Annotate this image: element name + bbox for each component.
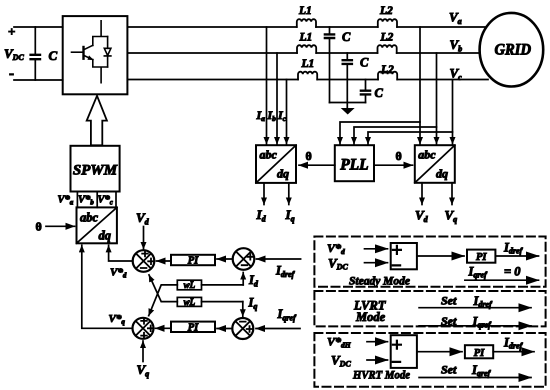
- svg-text:L1: L1: [298, 5, 312, 17]
- wire Iqref input: [256, 328, 300, 330]
- wire phase A line: [127, 26, 488, 28]
- svg-text:abc: abc: [260, 148, 278, 162]
- wire PI to S1: [157, 260, 172, 262]
- wire phase C line: [127, 79, 488, 81]
- svg-text:VDC: VDC: [328, 256, 348, 272]
- svg-text:Iqref: Iqref: [277, 307, 298, 323]
- svg-text:V*q: V*q: [109, 313, 126, 326]
- block PI (steady mode): [467, 250, 495, 264]
- wire Vq output: [451, 183, 453, 205]
- label Ic: [277, 108, 287, 123]
- wire Vb voltage tap: [436, 53, 438, 144]
- svg-text:C: C: [49, 48, 58, 63]
- svg-text:Mode: Mode: [355, 310, 386, 324]
- label C filter phase C: [375, 86, 384, 100]
- wire wL1 right to Id node: [202, 284, 244, 286]
- label Set Iqref (HVRT): [441, 363, 492, 379]
- grid source GRID: [480, 13, 544, 87]
- label L2 phase B: [380, 32, 394, 44]
- inductor L1 phase A: [297, 19, 316, 27]
- block PI (HVRT): [465, 345, 493, 359]
- svg-text:V*dH: V*dH: [327, 335, 352, 350]
- svg-text:Iq: Iq: [285, 207, 295, 224]
- svg-text:Idref: Idref: [503, 336, 524, 351]
- label L1 phase A: [298, 5, 312, 17]
- svg-text:L2: L2: [380, 32, 394, 44]
- gate drive arrow (SPWM to inverter): [87, 96, 107, 146]
- label L1 phase B: [299, 32, 313, 44]
- block abc to dq (voltage measurement): [415, 145, 455, 183]
- label theta (to dq-abc): [36, 220, 42, 234]
- svg-text:θ: θ: [36, 220, 42, 234]
- wire wL2 right to Iq node: [202, 301, 243, 303]
- inductor L2 phase B: [378, 45, 397, 53]
- wire V*b (dq-abc to SPWM): [96, 192, 98, 208]
- ground (filter neutral arrow): [342, 109, 353, 114]
- box Steady Mode (dashed): [314, 237, 545, 287]
- svg-text:V*d: V*d: [327, 241, 345, 256]
- label Iqref = 0: [468, 265, 522, 280]
- svg-text:Vq: Vq: [137, 362, 150, 379]
- label theta right: [396, 149, 402, 163]
- wire V*q to dq-abc block: [82, 245, 133, 328]
- label Iqref: [277, 307, 298, 323]
- wire Set Iqref arrow (HVRT): [419, 377, 531, 379]
- wire Set Idref arrow (LVRT): [419, 307, 531, 309]
- block wL (cross coupling 1): [177, 280, 201, 290]
- wire Vb to PLL: [354, 127, 437, 144]
- svg-text:Set: Set: [441, 363, 457, 377]
- wire Iq output: [288, 183, 290, 205]
- wire Idref out (HVRT): [493, 351, 534, 353]
- label Mode (LVRT): [355, 310, 386, 324]
- svg-text:Id: Id: [256, 207, 267, 224]
- svg-text:Ib: Ib: [267, 108, 277, 123]
- wire theta PLL to left abc-dq: [299, 164, 335, 166]
- wire V*d into comparator: [365, 248, 388, 250]
- wire Vq into S3: [142, 341, 144, 362]
- svg-text:Set: Set: [441, 294, 457, 308]
- label Id feedback: [248, 273, 259, 289]
- label Va: [449, 10, 462, 27]
- label Ia: [256, 108, 266, 123]
- svg-text:wL: wL: [184, 280, 196, 290]
- wire Ic current tap: [286, 80, 288, 145]
- svg-text:V*b: V*b: [78, 195, 94, 207]
- label V*d (steady mode): [327, 241, 345, 256]
- svg-text:PI: PI: [188, 255, 199, 266]
- box HVRT Mode (dashed): [314, 333, 545, 387]
- label Iq output: [285, 207, 295, 224]
- svg-text:Vc: Vc: [450, 66, 463, 83]
- svg-text:V*a: V*a: [58, 195, 74, 207]
- label V*q: [109, 313, 126, 326]
- wire VDC into comparator: [365, 262, 388, 264]
- svg-text:dq: dq: [99, 229, 112, 243]
- svg-text:L1: L1: [299, 32, 313, 44]
- svg-text:HVRT Mode: HVRT Mode: [352, 368, 410, 382]
- label Set Iqref (LVRT): [441, 314, 492, 330]
- svg-text:C: C: [375, 86, 384, 100]
- svg-text:Steady Mode: Steady Mode: [349, 274, 411, 288]
- svg-text:Va: Va: [449, 10, 462, 27]
- svg-text:PLL: PLL: [340, 157, 368, 174]
- svg-text:V*d: V*d: [110, 267, 127, 280]
- wire Vc voltage tap: [452, 80, 454, 145]
- svg-text:Ia: Ia: [256, 108, 266, 123]
- block dq to abc (under SPWM): [77, 207, 117, 243]
- block PI (d-axis): [171, 255, 215, 266]
- label V*a: [58, 195, 74, 207]
- wire Vd into summer S1: [143, 227, 145, 250]
- summer S2 (d-axis error): [233, 248, 255, 270]
- wire Idref input: [257, 258, 301, 260]
- svg-text:Vb: Vb: [450, 37, 463, 54]
- svg-text:Vd: Vd: [415, 208, 429, 225]
- label LVRT: [353, 299, 387, 313]
- block PLL: [335, 145, 374, 181]
- capacitor C filter phase C: [361, 80, 370, 103]
- summer S4 (q-axis error): [232, 318, 253, 339]
- summer S3 (q-axis output): [133, 318, 154, 339]
- capacitor C filter phase B: [343, 53, 352, 108]
- wire wL1 to S3 (cross arrow): [149, 285, 178, 316]
- label Vc: [450, 66, 463, 83]
- svg-text:Vd: Vd: [136, 210, 150, 227]
- summer S1 (d-axis output): [133, 250, 155, 272]
- svg-text:Iqref: Iqref: [472, 314, 493, 329]
- label Vd feedforward: [136, 210, 150, 227]
- wire theta into dq-abc: [46, 225, 75, 227]
- label V*dH: [327, 335, 352, 350]
- inductor L2 phase C: [378, 72, 397, 80]
- label Id output: [256, 207, 267, 224]
- label C filter phase A: [342, 30, 351, 44]
- label Vd output: [415, 208, 429, 225]
- svg-text:PI: PI: [476, 252, 487, 263]
- block PI (q-axis): [171, 322, 215, 334]
- svg-text:C: C: [360, 56, 369, 70]
- svg-text:V*c: V*c: [98, 195, 113, 207]
- wire VDC into comparator (HVRT): [367, 359, 388, 361]
- label VDC (steady mode): [328, 256, 348, 272]
- capacitor C filter phase A: [325, 27, 334, 103]
- transistor Q1 (IGBT with antiparallel diode): [72, 21, 111, 83]
- wire wL2 to S1 (cross arrow): [149, 275, 177, 302]
- block wL (cross coupling 2): [177, 297, 201, 307]
- svg-text:Vq: Vq: [445, 208, 458, 225]
- label Ib: [267, 108, 277, 123]
- wire V*d to dq-abc block: [109, 245, 133, 261]
- label Idref: [275, 264, 296, 280]
- svg-text:L1: L1: [301, 58, 315, 70]
- label VDC (HVRT): [331, 353, 351, 369]
- svg-text:Idref: Idref: [503, 241, 524, 256]
- label L2 phase C: [380, 64, 394, 76]
- label V*d: [110, 267, 127, 280]
- label V*b: [78, 195, 94, 207]
- wire Ib current tap: [276, 53, 278, 144]
- box LVRT Mode (dashed): [314, 291, 545, 326]
- wire Set Iqref arrow (LVRT): [419, 325, 531, 327]
- wire V*dH into comparator: [367, 341, 388, 343]
- wire PI2 to S3: [156, 327, 172, 329]
- wire comparator to PI (HVRT): [417, 351, 462, 353]
- label C (DC link capacitor): [49, 48, 58, 63]
- wire theta PLL to right abc-dq: [374, 164, 413, 166]
- wire Id output: [263, 183, 265, 205]
- wire V*c (dq-abc to SPWM): [115, 192, 117, 208]
- wire Vc to PLL: [368, 132, 453, 144]
- label Idref (HVRT): [503, 336, 524, 351]
- capacitor C (DC link): [31, 27, 40, 80]
- svg-text:PI: PI: [474, 348, 485, 359]
- wire S2 to PI: [217, 258, 233, 260]
- svg-text:PI: PI: [188, 322, 199, 333]
- svg-text:dq: dq: [436, 167, 448, 181]
- wire Iqref zero arrow: [465, 279, 539, 281]
- label HVRT Mode: [352, 368, 410, 382]
- label L1 phase C: [301, 58, 315, 70]
- inductor L2 phase A: [378, 19, 397, 27]
- wire phase B line: [127, 52, 481, 54]
- svg-text:GRID: GRID: [495, 41, 532, 58]
- label V*c: [98, 195, 113, 207]
- comparator (HVRT): [391, 335, 417, 368]
- wire S4 to PI2: [217, 328, 232, 330]
- inductor L1 phase C: [298, 72, 317, 80]
- svg-text:Id: Id: [248, 273, 259, 289]
- inductor L1 phase B: [297, 45, 316, 53]
- inverter U1 box: [63, 16, 128, 94]
- comparator (steady mode): [391, 243, 417, 269]
- wire Ia current tap: [266, 27, 268, 144]
- svg-text:SPWM: SPWM: [73, 163, 118, 179]
- wire V*a (dq-abc to SPWM): [76, 192, 78, 208]
- label Set Idref (LVRT): [441, 294, 493, 310]
- wire Vd output: [421, 183, 423, 205]
- wire Idref out (steady): [495, 255, 538, 257]
- block abc to dq (current measurement): [256, 145, 296, 183]
- svg-text:wL: wL: [184, 297, 196, 307]
- label Iq feedback: [248, 296, 258, 312]
- svg-text:L2: L2: [379, 5, 393, 17]
- label theta left: [306, 149, 312, 163]
- label + (DC positive terminal): [8, 24, 15, 39]
- svg-text:Iqref= 0: Iqref= 0: [468, 265, 522, 280]
- label Steady Mode: [349, 274, 411, 288]
- svg-text:Idref: Idref: [275, 264, 296, 280]
- label Idref (steady): [503, 241, 524, 256]
- block SPWM: [71, 146, 120, 192]
- svg-text:Iqref: Iqref: [471, 363, 492, 378]
- wire capacitor common rail: [330, 102, 366, 104]
- label C filter phase B: [360, 56, 369, 70]
- wire Id feedback into S2: [242, 273, 244, 285]
- svg-text:VDC: VDC: [4, 46, 24, 62]
- svg-text:Ic: Ic: [277, 108, 287, 123]
- svg-text:L2: L2: [380, 64, 394, 76]
- svg-text:VDC: VDC: [331, 353, 351, 369]
- label Vq output: [445, 208, 458, 225]
- svg-text:C: C: [342, 30, 351, 44]
- svg-text:dq: dq: [277, 167, 289, 181]
- wire DC bus negative: [14, 79, 63, 81]
- label VDC: [4, 46, 24, 62]
- wire comparator to PI (steady): [417, 255, 464, 257]
- svg-text:θ: θ: [306, 149, 312, 163]
- svg-text:θ: θ: [396, 149, 402, 163]
- label Vq feedforward: [137, 362, 150, 379]
- svg-text:Idref: Idref: [473, 294, 494, 309]
- wire DC bus positive: [14, 26, 63, 28]
- svg-text:abc: abc: [80, 211, 99, 225]
- wire Va to PLL: [340, 122, 420, 144]
- label Vb: [450, 37, 463, 54]
- label - (DC negative terminal): [9, 66, 14, 82]
- svg-text:abc: abc: [418, 148, 436, 162]
- label L2 phase A: [379, 5, 393, 17]
- wire Iq feedback into S4: [242, 302, 244, 317]
- wire Va voltage tap: [419, 27, 421, 144]
- svg-text:Iq: Iq: [248, 296, 258, 312]
